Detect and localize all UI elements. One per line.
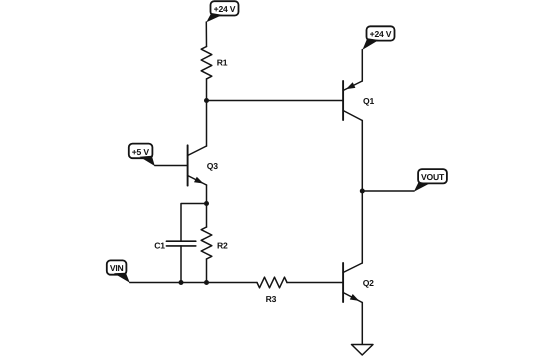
wire Q3 emitter to node N2 <box>206 185 208 204</box>
node N2 <box>204 201 209 206</box>
svg-text:R2: R2 <box>217 240 228 250</box>
ground <box>352 345 374 356</box>
transistor Q2 <box>343 263 362 303</box>
transistor Q3 <box>155 145 207 185</box>
wire VIN to R3 <box>130 282 257 284</box>
wire Q2 emitter to ground <box>361 303 363 345</box>
power label +5 V <box>129 144 155 166</box>
signal label VIN <box>107 260 130 282</box>
wire Q2 collector to VOUT node <box>361 191 363 263</box>
node N5 VOUT <box>360 189 365 194</box>
svg-text:VIN: VIN <box>110 263 124 273</box>
power label +24 V (top right) <box>363 26 395 50</box>
svg-text:C1: C1 <box>154 240 165 250</box>
svg-text:R1: R1 <box>217 58 228 68</box>
svg-text:R3: R3 <box>266 294 277 304</box>
resistor R1 <box>201 47 212 79</box>
capacitor C1 <box>166 241 195 246</box>
transistor Q1 <box>343 81 362 121</box>
wire node N1 to Q1 base <box>207 100 344 102</box>
node N3 <box>179 280 184 285</box>
wire R3 to Q2 base <box>287 282 343 284</box>
svg-text:+24 V: +24 V <box>214 4 236 14</box>
node N1 <box>204 98 209 103</box>
wire VOUT node to VOUT label <box>362 190 414 192</box>
svg-text:Q1: Q1 <box>363 96 374 106</box>
svg-text:VOUT: VOUT <box>421 172 445 182</box>
wire Q1 collector down to VOUT node <box>361 121 363 192</box>
resistor R3 <box>257 277 287 288</box>
svg-text:Q2: Q2 <box>363 278 374 288</box>
wire C1 to bottom node N3 <box>180 246 182 283</box>
svg-text:+5 V: +5 V <box>132 147 150 157</box>
wire from +24V label to R1 <box>205 22 207 47</box>
resistor R2 <box>201 227 212 259</box>
wire node N1 down to Q3 collector <box>206 101 208 147</box>
svg-text:+24 V: +24 V <box>370 29 392 39</box>
power label +24 V (top left) <box>206 1 238 22</box>
signal label VOUT <box>414 169 447 192</box>
svg-text:Q3: Q3 <box>207 161 218 171</box>
wire Q1 emitter to +24V label <box>361 50 363 82</box>
wire R2 to bottom node N4 <box>206 259 208 283</box>
wire node N2 to capacitor C1 <box>181 204 207 242</box>
wire R1 to node N1 <box>206 79 208 101</box>
node N4 <box>204 280 209 285</box>
wire node N2 to R2 <box>206 204 208 228</box>
